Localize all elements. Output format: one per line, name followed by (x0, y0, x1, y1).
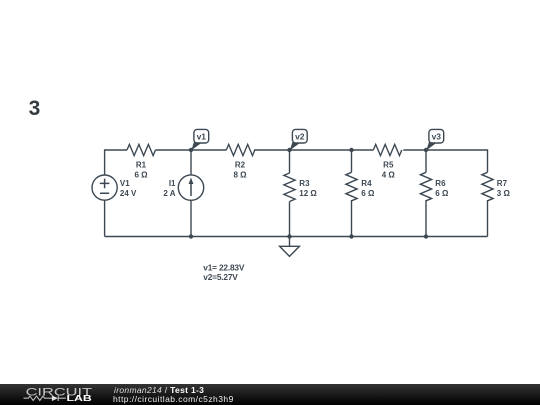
node A junction dot v1 top (189, 148, 193, 152)
junction dot R6 bottom (424, 234, 428, 238)
svg-text:LAB: LAB (67, 394, 92, 403)
resistor R5 (373, 144, 402, 155)
svg-text:8 Ω: 8 Ω (233, 171, 247, 180)
svg-text:v3: v3 (432, 131, 442, 141)
footer text line 2 (113, 394, 234, 404)
svg-text:2 A: 2 A (163, 189, 175, 198)
wire: R4 bottom lead (351, 200, 353, 237)
junction dot I1 bottom (189, 234, 193, 238)
svg-text:R5: R5 (383, 160, 394, 169)
resistor R4 (346, 172, 357, 201)
svg-text:v1: v1 (197, 131, 207, 141)
resistor R2 (226, 144, 255, 155)
svg-text:4 Ω: 4 Ω (382, 171, 396, 180)
svg-text:v1= 22.83V: v1= 22.83V (203, 263, 245, 273)
wire: bottom rail (105, 236, 488, 238)
wire: R6 bottom lead (425, 200, 427, 237)
wire: R7 bottom lead (487, 200, 489, 237)
wire: R4 top lead (351, 150, 353, 172)
resistor R3 (284, 173, 295, 202)
node junction dot R4 top (349, 148, 353, 152)
node B junction dot v2 top (287, 148, 291, 152)
wire: I1 bottom lead (190, 200, 192, 236)
footer text line 1 (114, 385, 204, 395)
svg-text:R7: R7 (497, 179, 508, 188)
svg-text:6 Ω: 6 Ω (435, 189, 449, 198)
svg-text:R1: R1 (136, 160, 147, 169)
svg-text:12 Ω: 12 Ω (299, 189, 317, 198)
resistor R7 (482, 172, 493, 201)
wire: R3 bottom lead (289, 202, 291, 237)
node flag v1 (191, 129, 208, 150)
wire: node v3 to top right corner and down to R7 (426, 150, 488, 172)
junction dot R4 bottom (349, 234, 353, 238)
svg-text:6 Ω: 6 Ω (361, 189, 375, 198)
node flag v2 (290, 129, 307, 150)
junction dot ground (287, 234, 291, 238)
CircuitLab logo (0, 384, 120, 405)
footer bar (0, 384, 540, 405)
svg-text:R2: R2 (235, 160, 246, 169)
wire: R4 node to R5 (352, 149, 374, 151)
svg-text:24 V: 24 V (120, 189, 137, 198)
svg-text:3 Ω: 3 Ω (497, 189, 511, 198)
wire: V1 bottom lead (104, 200, 106, 236)
resistor R1 (127, 144, 156, 155)
wire: top rail left segment V1 to R1 (105, 150, 127, 175)
node C junction dot v3 top (424, 148, 428, 152)
resistor R6 (420, 172, 431, 201)
svg-text:6 Ω: 6 Ω (134, 171, 148, 180)
svg-text:R6: R6 (435, 179, 446, 188)
wire: I1 top lead (190, 150, 192, 175)
voltage source V1 (92, 175, 117, 200)
wire: node v2 to R4 node (290, 149, 352, 151)
wire: R6 top lead (425, 150, 427, 172)
svg-text:R4: R4 (361, 179, 372, 188)
ground (289, 237, 291, 247)
node flag v3 (426, 129, 443, 150)
svg-text:V1: V1 (120, 179, 130, 188)
wire: R1 to node v1 (156, 149, 192, 151)
svg-text:I1: I1 (169, 179, 176, 188)
svg-text:v2: v2 (295, 131, 305, 141)
wire: R5 to node v3 (403, 149, 426, 151)
page number 3 (29, 97, 41, 121)
wire: node v1 to R2 (191, 149, 226, 151)
svg-text:v2=5.27V: v2=5.27V (203, 272, 238, 282)
svg-text:R3: R3 (299, 179, 310, 188)
current source I1 (178, 175, 203, 200)
wire: R2 to node v2 (254, 149, 290, 151)
wire: R3 top lead (289, 150, 291, 173)
